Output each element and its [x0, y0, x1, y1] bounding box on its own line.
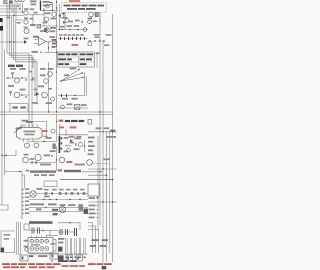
junction dot (75,95.5)	[74, 95, 75, 96]
ribbon wire pair 4	[79, 238, 80, 255]
transformer T1 winding	[14, 1, 25, 3]
label stack right c	[52, 46, 56, 48]
label at bus right	[110, 130, 115, 132]
red tiny label	[44, 136, 48, 137]
text right of Q23	[74, 164, 85, 166]
J2 label 6	[25, 208, 29, 210]
capacitor pair b	[38, 228, 40, 234]
wire vert from coil x12	[11, 3, 13, 12]
rotary switch S1 wafer line 2	[61, 73, 82, 81]
wire drop x84.5	[84, 140, 86, 152]
junction dot (90,41)	[89, 40, 91, 42]
label right col a	[94, 34, 100, 36]
red testpoint TP2	[70, 126, 77, 128]
junction dot (41.8,103.5)	[36, 103, 37, 104]
SW1 contact center dots	[31, 241, 47, 250]
wire corner y175	[22, 175, 25, 188]
label after D4	[74, 138, 80, 140]
label under PS1	[89, 197, 95, 199]
dark blob bottom right	[102, 266, 107, 269]
terminal marks left top	[3, 1, 8, 2]
label m4	[38, 85, 44, 87]
labels left of SW1	[24, 240, 28, 242]
wire bus y10	[40, 9, 58, 11]
op-amp U1	[39, 38, 47, 46]
label mid	[38, 255, 47, 257]
table legend box	[57, 52, 94, 67]
wire vert x56.5 seg3	[56, 115, 58, 142]
capacitor tick (32,164)	[31, 161, 34, 164]
wire vert x22.5	[22, 3, 24, 12]
J2 label 2	[25, 192, 29, 194]
label Q3	[24, 27, 28, 29]
wire y141.5	[29, 141, 57, 143]
right pin labels rows	[89, 205, 96, 207]
switch contact dots	[60, 69, 84, 82]
header second row word2	[41, 174, 47, 176]
SW1 contact r1c4	[45, 239, 49, 243]
connector box B1	[20, 255, 28, 261]
connector box B4	[76, 255, 82, 261]
junction dot (20,171.5)	[19, 171, 20, 172]
junction dot (100,112)	[99, 111, 100, 112]
J2 pin tick 4	[22, 201, 24, 203]
ribbon wire pair 2	[70, 238, 71, 255]
wire U1 input b	[34, 43, 39, 45]
label above D2	[24, 38, 29, 40]
capacitor pair a	[32, 228, 34, 234]
wire drop x65	[64, 12, 66, 29]
transistor Q29	[65, 19, 69, 23]
transistor Q16	[61, 105, 65, 109]
J2 pin tick 2	[22, 193, 24, 195]
wire y235.5	[46, 235, 58, 237]
resistor R21 zigzag	[65, 145, 71, 147]
label lower r2	[64, 151, 69, 153]
header second row word1	[34, 174, 39, 176]
junction dot (50,199.5)	[49, 199, 50, 200]
red note line 1 word blobs	[2, 263, 112, 267]
junction dot (100,41)	[99, 40, 101, 42]
resistor hatch R20	[52, 143, 55, 149]
label x68 y20.6	[68, 21, 73, 23]
junction dot (95,41)	[94, 40, 96, 42]
wire corner into octagon	[29, 122, 47, 136]
transistor Q7	[89, 12, 94, 17]
callout text line 2 word blobs	[67, 8, 96, 10]
label fill d	[48, 88, 52, 90]
wire vert x18.5	[18, 222, 20, 255]
label L1	[10, 68, 16, 70]
label fill b	[31, 79, 35, 81]
junction dot (56.5,8)	[56, 7, 57, 8]
label col x50 row2	[50, 30, 55, 32]
wire vert x16	[15, 3, 17, 20]
label above bus a	[96, 127, 102, 129]
label m3	[40, 74, 46, 76]
wire vert x48.5 lower	[48, 62, 50, 112]
label col x50 row1	[50, 27, 56, 29]
label above M1	[36, 188, 42, 190]
label on bus 3	[74, 25, 79, 27]
label above switch	[70, 68, 76, 70]
right label cluster r1b	[102, 239, 108, 241]
connector box B3	[66, 255, 72, 261]
transistor Q4	[46, 4, 50, 8]
label stack right a	[52, 39, 56, 41]
connector J2 spine	[21, 188, 23, 219]
wire y171.8 right span	[82, 171, 103, 173]
SW1 contact r1c3	[40, 239, 44, 243]
left box interior label a	[4, 234, 11, 236]
label between lines	[44, 196, 50, 198]
wire y199.5	[29, 199, 88, 201]
wire y78	[6, 77, 28, 79]
wire nested bus 3	[11, 16, 33, 68]
dark blob left	[58, 247, 62, 252]
label near S2	[16, 127, 22, 129]
junction dot (103,169)	[102, 168, 103, 169]
wire y95 right	[20, 94, 29, 96]
wire L drop from x100	[99, 12, 101, 24]
component marks x88 col	[88, 18, 92, 20]
corner right small 2	[88, 226, 96, 253]
junction dot (103,202)	[102, 201, 103, 202]
junction dot (84.5,146)	[84, 145, 85, 146]
junction dot (56.5,2)	[56, 1, 57, 2]
capacitor tick x82 y21	[82, 21, 83, 24]
wire y214.5	[29, 211, 88, 213]
SW1 right bracket	[53, 240, 56, 252]
SW1 contact r1c1	[30, 239, 34, 243]
wire comp row y108	[58, 107, 88, 109]
value labels above caps row	[59, 34, 84, 36]
wire y210.5	[29, 207, 88, 209]
label row under corners word1	[8, 65, 15, 67]
junction dot (33,78)	[32, 77, 33, 78]
junction dot (52.5,10.3)	[52, 10, 53, 11]
junction dot (18,6)	[17, 5, 18, 6]
junction dot (56.5,52.3)	[56, 52, 57, 53]
label top extra b	[76, 136, 81, 138]
cap tick (52,193.5)	[52, 192, 53, 195]
diode D2 at line end	[24, 40, 27, 44]
junction dot (6,155.5)	[5, 155, 6, 156]
transistor Q15	[51, 97, 55, 101]
value label band f	[80, 189, 85, 191]
wire bus y131.8 right	[88, 131, 117, 133]
dashed wire y163.5	[93, 163, 111, 165]
board label word blobs	[65, 120, 70, 122]
pin label r3	[88, 145, 95, 147]
rotary switch S1 wafer line 1	[61, 70, 79, 82]
wire bus y38.5 caps row	[58, 38, 88, 40]
transistor Q25 left	[25, 248, 28, 251]
junction dot (104,41)	[103, 40, 105, 42]
ribbon wire pair 5	[84, 238, 85, 255]
pin label r2	[88, 141, 93, 143]
junction dot (44,199.5)	[43, 199, 44, 200]
capacitor tick (36,164)	[35, 161, 38, 164]
J2 pin tick 1	[22, 189, 24, 191]
label R11 value	[30, 0, 37, 2]
label x7 y16.6	[7, 17, 11, 19]
label x32	[32, 102, 37, 104]
wire vert x56.5 mid	[56, 33, 58, 68]
J2 label 1	[25, 188, 29, 190]
cap tick (78,193.5)	[78, 192, 79, 195]
label fill c	[34, 89, 38, 91]
junction dot (8,78)	[7, 77, 8, 78]
relay RY1 octagon body	[17, 127, 43, 139]
label between rails	[36, 208, 41, 210]
label right of SW1	[50, 243, 55, 245]
wire right bus x110	[109, 131, 111, 253]
wire bus y26	[40, 25, 58, 27]
label Q2	[24, 17, 28, 19]
switch arm S2	[14, 125, 24, 134]
wire horiz feed y15	[0, 15, 24, 17]
dark text in box corner	[1, 248, 5, 252]
transistor Q6	[44, 17, 48, 21]
callout text line 1 word blobs	[64, 5, 105, 7]
motor M1	[30, 191, 36, 197]
ring terminal (46,193.5)	[45, 192, 47, 194]
junction dot (59.5,29.5)	[59, 29, 60, 30]
wire box left x10	[9, 104, 11, 113]
wire y155.5	[2, 150, 16, 156]
junction dot (56.5,160)	[56, 159, 57, 160]
label row2b	[20, 89, 26, 91]
wire nested bus 1	[7, 2, 29, 127]
junction dot (113,131.8)	[112, 131, 113, 132]
wire vert from coil x14	[13, 3, 15, 16]
label x46	[46, 102, 52, 104]
junction dot (100,171.8)	[99, 171, 100, 172]
wire corner y222.8	[58, 223, 80, 230]
wire y169 right	[88, 168, 117, 170]
label on bus 2	[67, 25, 72, 27]
transistor Q24	[87, 160, 93, 166]
transistor Q21	[23, 157, 29, 163]
wire vert from coil x10	[9, 3, 11, 9]
red label right of U1	[50, 36, 56, 38]
J2 label 4	[25, 200, 29, 202]
wire right bus x103	[102, 41, 104, 268]
wire drop from box	[59, 4, 61, 30]
wire y230.5	[29, 230, 58, 232]
wire vert x50	[49, 231, 51, 237]
connector tab label left edge B	[0, 26, 3, 31]
wire y179.6 right span bold	[60, 179, 113, 181]
dark blob x58	[58, 255, 64, 261]
wire stub x97	[96, 52, 98, 68]
cap tick pair x50 y2	[50, 2, 52, 3]
label under right	[104, 44, 109, 46]
capacitor C6	[9, 91, 12, 96]
label left of Q22	[30, 158, 35, 160]
label m1	[40, 68, 46, 70]
RY1 top pin 4	[32, 124, 34, 127]
junction dot (44,10.3)	[43, 10, 44, 11]
label left of Q26	[40, 30, 44, 32]
tick under PS1	[97, 197, 99, 198]
transistor Q10	[15, 78, 20, 83]
junction dot (56.5,199.5)	[56, 199, 57, 200]
label row right of C1 upper	[43, 1, 50, 3]
diode D3	[36, 92, 39, 96]
pin label r4	[88, 149, 93, 151]
label mid extra c	[70, 142, 75, 144]
SW1 contact r2c3	[40, 247, 44, 251]
SW1 contact r2c2	[35, 247, 39, 251]
red note 47ohm	[72, 44, 79, 46]
SW1 contact r2c4	[45, 247, 49, 251]
label y137	[46, 137, 52, 139]
right label cluster r2b	[100, 245, 106, 247]
wire horiz feed y9	[0, 8, 20, 10]
junction dot (2,155.5)	[1, 155, 2, 156]
wire right bus x100	[99, 12, 101, 225]
J2 pin tick 3	[22, 197, 24, 199]
label x43 y21.6	[43, 22, 48, 24]
wire vert x20	[19, 3, 21, 9]
red ref left of label	[59, 120, 64, 122]
wire U1 output	[46, 41, 57, 43]
junction dot (78,29.5)	[77, 29, 78, 30]
junction dot (43,230.5)	[42, 230, 43, 231]
ring terminal (72,193.5)	[71, 192, 73, 194]
diode D4	[70, 139, 73, 142]
junction dot (46,206)	[45, 207, 46, 208]
connector tab label left edge A	[0, 18, 3, 22]
label right of table	[96, 52, 100, 54]
J2 pin tick 6	[22, 209, 24, 211]
wire vert x59.5 drop	[59, 124, 61, 136]
transistor Q27	[67, 148, 71, 152]
wire y162.5	[29, 162, 57, 164]
wire horiz feed y6	[0, 5, 18, 7]
label x75 y19.6	[75, 20, 80, 22]
junction dot (52,156)	[51, 155, 52, 156]
junction dot (37.4,95)	[34, 94, 35, 95]
left big box outline	[1, 231, 15, 253]
transistor Q19 below RY1	[34, 143, 39, 148]
junction dot (10,42)	[9, 41, 10, 42]
wire vert x16.5	[16, 222, 18, 255]
junction dot (22,78)	[21, 77, 22, 78]
label right of J1 r1	[64, 137, 69, 139]
wire board boundary double line upper	[0, 111, 113, 113]
transistor Q22	[35, 154, 41, 160]
wire bottom y254	[29, 253, 88, 255]
label x30 y18	[30, 18, 34, 20]
wire vert x18	[17, 3, 19, 6]
label C12 value	[31, 3, 36, 5]
component stack x78	[78, 204, 83, 211]
value label band e	[73, 189, 78, 191]
double bar comp	[75, 228, 77, 236]
label on bus 1	[60, 26, 65, 28]
label above Q21	[24, 154, 29, 156]
red label right of RY1	[42, 130, 47, 132]
value label band c	[59, 189, 64, 191]
label above dashed	[104, 158, 110, 160]
dash mark under box	[63, 13, 65, 14]
ribbon label rows	[58, 238, 64, 240]
transistor Q26	[45, 28, 50, 33]
junction dot (52,261)	[51, 260, 52, 261]
junction dot (70,29.5)	[69, 29, 70, 30]
wire left margin bus 1	[1, 20, 3, 205]
wire vert x48 down	[48, 42, 50, 53]
RY1 inner text	[23, 131, 35, 133]
transistor Q2	[24, 20, 28, 24]
wire y232 seg	[58, 231, 74, 233]
capacitor tick extra	[75, 143, 76, 146]
junction dot (70,199.5)	[69, 199, 70, 200]
label fill a	[29, 71, 33, 73]
wire y193.5	[36, 193, 88, 195]
J2 pin tick 5	[22, 205, 24, 207]
red ref in header	[58, 169, 63, 171]
pin label r1	[88, 137, 95, 139]
label above sw arm	[22, 120, 28, 122]
ribbon feet	[65, 257, 85, 258]
wire y202 right	[88, 201, 117, 203]
label right col b	[95, 36, 100, 38]
junction dot (14,15.5)	[13, 15, 14, 16]
transistor Q8	[88, 20, 92, 24]
wire bus y29.5	[58, 29, 88, 31]
tick marks right x97	[97, 206, 99, 218]
component box right x88	[88, 119, 92, 124]
label row2	[8, 85, 14, 87]
RY1 bottom pin 3	[32, 139, 34, 142]
pin square 1	[61, 137, 63, 139]
pin square 3	[61, 148, 63, 150]
label comp row	[66, 103, 72, 105]
wire y52 to table	[44, 51, 57, 53]
table column divider	[78, 52, 80, 67]
label under bus 1	[62, 98, 68, 100]
wire vert x20.5	[20, 222, 22, 255]
junction dot (22.5,12)	[22, 11, 23, 12]
dotted wire y41 right	[88, 40, 104, 42]
wire y134.8 under label	[58, 134, 88, 136]
header text right part	[64, 170, 81, 172]
transistor Q3	[24, 29, 29, 34]
junction dot (103,131.8)	[102, 131, 103, 132]
transistor Q18 below RY1	[25, 143, 30, 148]
label right of K1	[81, 104, 87, 106]
label right of Q22	[44, 154, 50, 156]
wire vert x66 drop	[65, 129, 67, 136]
table row divider 1	[57, 56, 94, 58]
label x16 y22	[17, 22, 21, 24]
label above table left	[32, 51, 38, 53]
junction dot (56.5,46)	[56, 45, 57, 46]
relay box K1	[75, 104, 80, 109]
label under y162	[40, 164, 51, 166]
wire horiz feed y12	[0, 11, 23, 13]
dashed callout box	[62, 3, 107, 12]
label Q1	[24, 8, 29, 10]
label above Q24	[88, 153, 94, 155]
transistor Q17	[51, 129, 55, 133]
wire box right x28	[27, 104, 29, 113]
transistor Q12	[48, 72, 53, 77]
